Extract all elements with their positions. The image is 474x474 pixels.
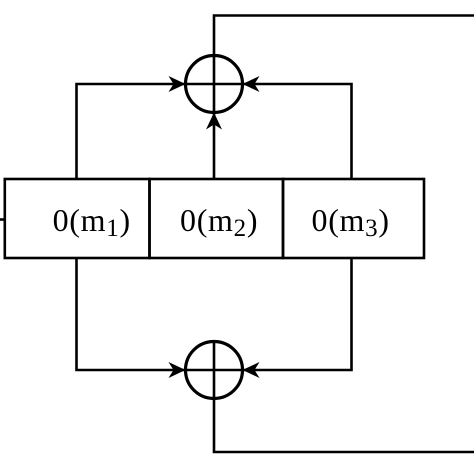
- svg-text:0(m3): 0(m3): [312, 202, 390, 242]
- wire: tap from register m1 bottom to XOR2 left input: [77, 258, 186, 378]
- register stage box m2: [150, 179, 284, 258]
- wire: tap from register m3 bottom to XOR2 right input: [243, 258, 352, 378]
- register stage box m1: [5, 179, 150, 258]
- svg-text:0(m2): 0(m2): [180, 202, 258, 242]
- wire: tap from register m2 top to XOR1 bottom input: [206, 113, 222, 180]
- wire: tap from register m1 top to XOR1 left input: [77, 76, 186, 179]
- register stage box m3: [283, 179, 424, 258]
- svg-text:0(m1): 0(m1): [53, 202, 131, 242]
- op-amp adder XOR2 (modulo-2 adder, bottom): [186, 342, 243, 399]
- wire: output v2 from adder XOR2 down and right to edge: [214, 399, 474, 453]
- wire: tap from register m3 top to XOR1 right input: [243, 76, 352, 179]
- wire: input stub into register m1 at left edge: [0, 218, 5, 221]
- wire: output v1 from adder XOR1 up and right to edge: [214, 16, 474, 57]
- op-amp adder XOR1 (modulo-2 adder, top): [186, 56, 243, 113]
